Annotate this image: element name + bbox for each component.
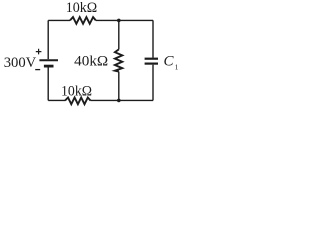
wire right vertical lower segment bbox=[152, 65, 154, 101]
svg-text:C: C bbox=[164, 53, 175, 69]
resistor R3 40kΩ vertical zigzag bbox=[115, 49, 122, 71]
wire left vertical upper segment bbox=[47, 20, 49, 59]
resistor R2 10kΩ bottom zigzag bbox=[65, 98, 91, 105]
wire top-right horizontal segment bbox=[96, 19, 153, 21]
junction node bottom bbox=[117, 99, 121, 103]
minus sign of source bbox=[35, 69, 40, 71]
plus sign of source bbox=[36, 49, 42, 55]
capacitor C1 top plate bbox=[145, 58, 158, 60]
wire middle vertical lower segment bbox=[118, 72, 120, 101]
svg-text:300V: 300V bbox=[4, 55, 37, 71]
wire left vertical lower segment bbox=[47, 68, 49, 101]
resistor R1 10kΩ top zigzag bbox=[70, 17, 96, 24]
wire top-left horizontal segment bbox=[48, 19, 70, 21]
svg-text:40kΩ: 40kΩ bbox=[74, 54, 108, 70]
wire bottom-left horizontal segment bbox=[48, 99, 65, 101]
wire middle vertical upper segment bbox=[118, 20, 120, 49]
junction node top bbox=[117, 19, 121, 23]
wire right vertical upper segment bbox=[152, 20, 154, 57]
svg-text:10kΩ: 10kΩ bbox=[66, 0, 98, 16]
wire bottom-right horizontal segment bbox=[91, 99, 154, 101]
battery source 300V long positive plate bbox=[39, 59, 58, 61]
svg-text:10kΩ: 10kΩ bbox=[61, 83, 92, 99]
battery source 300V short negative plate bbox=[44, 65, 54, 68]
svg-text:1: 1 bbox=[175, 62, 179, 71]
capacitor C1 bottom plate bbox=[145, 62, 158, 64]
